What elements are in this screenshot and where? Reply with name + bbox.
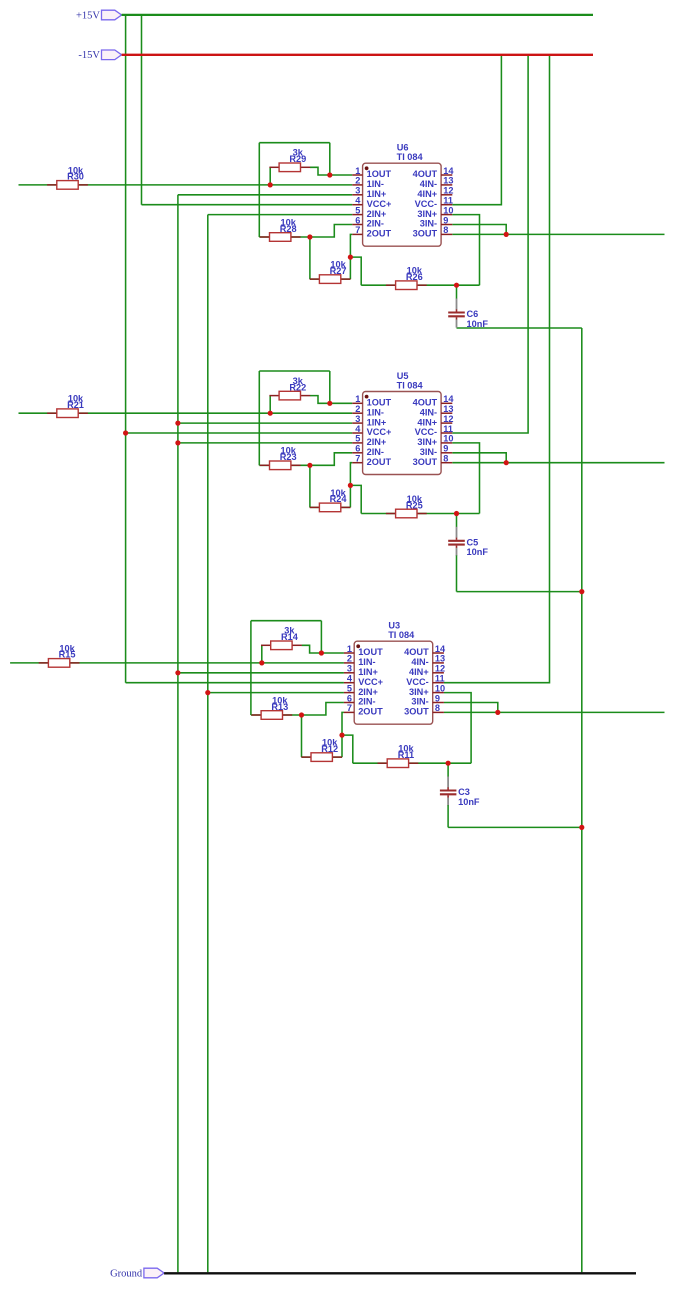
U5 pin 11 bbox=[441, 432, 452, 434]
svg-text:C3: C3 bbox=[458, 787, 470, 797]
wire U6 3OUT output bbox=[452, 233, 664, 235]
wire U3 2OUT (pin7) down to R12 right bbox=[342, 712, 344, 757]
junction U5 VCC+ tap on +15V drop bbox=[123, 430, 128, 435]
wire R22 right step bbox=[310, 396, 352, 404]
svg-text:4: 4 bbox=[355, 424, 361, 434]
U6 pin 3 bbox=[352, 194, 362, 196]
wire U3 VCC+ (pin4) to +15V rail bbox=[126, 682, 344, 684]
wire U5 VCC+ (pin4) to +15V rail bbox=[126, 432, 353, 434]
wire 2IN+ rail to Ground bbox=[207, 215, 209, 1273]
wire 1IN+ rail to Ground bbox=[177, 195, 179, 1273]
svg-text:9: 9 bbox=[443, 215, 448, 225]
U3 pin 12 bbox=[433, 672, 444, 674]
U6 pin 14 bbox=[441, 174, 452, 176]
svg-text:7: 7 bbox=[355, 454, 360, 464]
U5 pin 13 bbox=[441, 412, 452, 414]
svg-text:1: 1 bbox=[355, 394, 360, 404]
svg-text:13: 13 bbox=[443, 404, 453, 414]
wire feedback loop top (U6) bbox=[259, 142, 330, 144]
U6 pin 13 bbox=[441, 184, 452, 186]
U6 pin 10 bbox=[441, 214, 452, 216]
svg-text:5: 5 bbox=[355, 434, 360, 444]
svg-text:2OUT: 2OUT bbox=[367, 457, 392, 467]
svg-text:2IN-: 2IN- bbox=[367, 219, 384, 229]
svg-text:5: 5 bbox=[355, 205, 360, 215]
U5 pin 7 bbox=[352, 462, 362, 464]
wire 2OUT node branch to R26 bbox=[350, 257, 361, 285]
U3 pin 14 bbox=[433, 652, 444, 654]
junction R28/R27 node (U6 2IN-) bbox=[307, 234, 312, 239]
svg-text:TI 084: TI 084 bbox=[388, 630, 415, 640]
U5 pin 10 bbox=[441, 442, 452, 444]
capacitor C3 bbox=[447, 763, 449, 777]
svg-text:1IN-: 1IN- bbox=[358, 657, 375, 667]
wire R28 output jog to U6 2IN- (pin6) bbox=[310, 225, 352, 238]
wire 2OUT node branch to R25 bbox=[350, 485, 361, 513]
svg-text:TI 084: TI 084 bbox=[397, 152, 424, 162]
svg-text:4IN-: 4IN- bbox=[411, 657, 428, 667]
svg-text:6: 6 bbox=[355, 444, 360, 454]
wire U3 1IN+ (pin3) to ground rail bbox=[178, 672, 344, 674]
wire -15V bus bbox=[122, 54, 593, 56]
resistor R28 bbox=[260, 236, 270, 238]
svg-text:4IN+: 4IN+ bbox=[417, 189, 437, 199]
junction C5 bottom on ground vertical bbox=[579, 589, 584, 594]
svg-text:1OUT: 1OUT bbox=[367, 398, 392, 408]
wire U3 3OUT output bbox=[444, 711, 665, 713]
svg-text:13: 13 bbox=[435, 654, 445, 664]
wire U6 VCC+ (pin4) to +15V rail bbox=[142, 204, 353, 206]
U6 pin-1 orientation dot bbox=[365, 166, 369, 170]
svg-text:4OUT: 4OUT bbox=[404, 647, 429, 657]
svg-text:R26: R26 bbox=[406, 272, 423, 282]
wire U5 3OUT output bbox=[452, 462, 664, 464]
svg-text:R25: R25 bbox=[406, 500, 423, 510]
wire input to R15 (U3 1IN-) bbox=[10, 662, 344, 664]
wire R28 row bbox=[259, 236, 310, 238]
U6 pin 12 bbox=[441, 194, 452, 196]
svg-text:14: 14 bbox=[435, 644, 446, 654]
svg-text:2IN-: 2IN- bbox=[358, 697, 375, 707]
wire input to R21 (U5 1IN-) bbox=[19, 412, 353, 414]
svg-text:4IN-: 4IN- bbox=[420, 407, 437, 417]
svg-text:R22: R22 bbox=[289, 382, 306, 392]
wire U5 2IN+ (pin5) to ground rail bbox=[178, 442, 352, 444]
U5 pin 9 bbox=[441, 452, 452, 454]
svg-text:R24: R24 bbox=[330, 494, 348, 504]
port Ground bbox=[144, 1268, 164, 1278]
U6 pin 1 bbox=[352, 174, 362, 176]
svg-text:C5: C5 bbox=[467, 537, 479, 547]
svg-text:7: 7 bbox=[355, 225, 360, 235]
resistor R30 bbox=[47, 184, 57, 186]
wire Ground bus bbox=[164, 1272, 636, 1274]
junction U5 2IN+ tap on ground rail bbox=[175, 440, 180, 445]
svg-text:10: 10 bbox=[435, 683, 445, 693]
svg-text:13: 13 bbox=[443, 176, 453, 186]
wire U6 2IN+ (pin5) to ground rail bbox=[208, 214, 352, 216]
resistor R14 bbox=[261, 644, 271, 646]
svg-text:11: 11 bbox=[443, 424, 453, 434]
wire R14 right step bbox=[302, 645, 344, 653]
wire loop left vertical to R28 bbox=[258, 143, 260, 237]
U6 pin 9 bbox=[441, 224, 452, 226]
svg-text:8: 8 bbox=[443, 454, 448, 464]
wire 2OUT node branch to R11 bbox=[342, 735, 353, 763]
wire C6 bottom to ground vertical bbox=[457, 327, 582, 329]
wire loop right vertical to U6 pin1 bbox=[329, 143, 331, 175]
svg-text:12: 12 bbox=[443, 414, 453, 424]
U5 pin 4 bbox=[352, 432, 362, 434]
svg-text:2: 2 bbox=[355, 176, 360, 186]
svg-text:2: 2 bbox=[347, 654, 352, 664]
op-amp U5 body (TI 084) bbox=[363, 392, 442, 475]
wire +15V drop to U6 VCC+ bbox=[141, 15, 143, 205]
junction U3 2OUT node bbox=[339, 733, 344, 738]
svg-text:9: 9 bbox=[435, 693, 440, 703]
U6 pin 11 bbox=[441, 204, 452, 206]
svg-text:6: 6 bbox=[347, 693, 352, 703]
U6 pin 8 bbox=[441, 233, 452, 235]
svg-text:1: 1 bbox=[347, 644, 352, 654]
junction U3 1IN+ tap on ground rail bbox=[175, 670, 180, 675]
wire loop left vertical to R23 bbox=[258, 371, 260, 465]
svg-text:3IN-: 3IN- bbox=[420, 447, 437, 457]
U3 pin 11 bbox=[433, 682, 444, 684]
svg-text:4OUT: 4OUT bbox=[413, 398, 438, 408]
svg-text:R15: R15 bbox=[59, 650, 76, 660]
junction R13/R12 node (U3 2IN-) bbox=[299, 712, 304, 717]
U5 pin 14 bbox=[441, 402, 452, 404]
wire feedback loop top (U3) bbox=[251, 620, 322, 622]
wire +15V bus bbox=[122, 14, 593, 16]
svg-text:R23: R23 bbox=[280, 452, 297, 462]
svg-text:VCC-: VCC- bbox=[415, 199, 437, 209]
U3 pin 7 bbox=[344, 711, 354, 713]
junction U3 1OUT node bbox=[319, 650, 324, 655]
svg-text:2IN+: 2IN+ bbox=[358, 687, 378, 697]
wire R14 left lead down to 1IN- node bbox=[261, 645, 263, 663]
wire R25 row bbox=[361, 513, 479, 515]
U3 pin 10 bbox=[433, 692, 444, 694]
svg-text:3OUT: 3OUT bbox=[413, 457, 438, 467]
svg-text:11: 11 bbox=[443, 196, 453, 206]
svg-text:3: 3 bbox=[355, 186, 360, 196]
wire U6 1IN+ (pin3) to ground rail bbox=[178, 194, 352, 196]
svg-text:4IN-: 4IN- bbox=[420, 179, 437, 189]
wire R23 output jog to U5 2IN- (pin6) bbox=[310, 453, 352, 466]
svg-text:VCC-: VCC- bbox=[406, 677, 428, 687]
wire capacitor ground vertical bbox=[581, 328, 583, 1272]
U5 pin 6 bbox=[352, 452, 362, 454]
svg-text:2: 2 bbox=[355, 404, 360, 414]
resistor R22 bbox=[269, 395, 279, 397]
U5 pin 2 bbox=[352, 412, 362, 414]
wire feedback loop top (U5) bbox=[259, 370, 330, 372]
wire U3 2IN+ (pin5) to ground rail bbox=[208, 692, 344, 694]
U5 pin 3 bbox=[352, 422, 362, 424]
svg-text:14: 14 bbox=[443, 394, 454, 404]
capacitor C5 bbox=[456, 514, 458, 528]
capacitor C6 bbox=[456, 285, 458, 299]
U3 pin 6 bbox=[344, 702, 354, 704]
svg-text:2IN+: 2IN+ bbox=[367, 437, 387, 447]
svg-text:VCC+: VCC+ bbox=[367, 199, 392, 209]
svg-text:14: 14 bbox=[443, 166, 454, 176]
svg-text:Ground: Ground bbox=[110, 1268, 143, 1279]
op-amp U6 body (TI 084) bbox=[363, 163, 442, 246]
port -15V bbox=[102, 50, 122, 60]
junction C3 bottom on ground vertical bbox=[579, 825, 584, 830]
U6 pin 5 bbox=[352, 214, 362, 216]
resistor R27 bbox=[310, 278, 320, 280]
U5 pin 1 bbox=[352, 402, 362, 404]
svg-text:6: 6 bbox=[355, 215, 360, 225]
wire R13 output jog to U3 2IN- (pin6) bbox=[302, 703, 344, 716]
U3 pin 9 bbox=[433, 702, 444, 704]
svg-text:4IN+: 4IN+ bbox=[409, 667, 429, 677]
svg-text:R29: R29 bbox=[289, 154, 306, 164]
U3 pin 1 bbox=[344, 652, 354, 654]
svg-text:10nF: 10nF bbox=[467, 319, 489, 329]
svg-text:R12: R12 bbox=[321, 744, 338, 754]
junction R23/R24 node (U5 2IN-) bbox=[307, 463, 312, 468]
U3 pin-1 orientation dot bbox=[356, 644, 360, 648]
svg-text:3IN-: 3IN- bbox=[411, 697, 428, 707]
resistor R29 bbox=[269, 166, 279, 168]
svg-text:2IN+: 2IN+ bbox=[367, 209, 387, 219]
svg-text:C6: C6 bbox=[467, 309, 479, 319]
wire R13 right down to R12 left bbox=[301, 715, 303, 757]
svg-text:10: 10 bbox=[443, 434, 453, 444]
junction R11/C3 node (U3 3IN+) bbox=[446, 761, 451, 766]
svg-text:1IN+: 1IN+ bbox=[358, 667, 378, 677]
resistor R25 bbox=[386, 513, 396, 515]
wire loop left vertical to R13 bbox=[250, 621, 252, 715]
svg-text:R27: R27 bbox=[330, 266, 347, 276]
resistor R23 bbox=[260, 464, 270, 466]
junction U6 2OUT node bbox=[348, 255, 353, 260]
svg-text:4IN+: 4IN+ bbox=[417, 417, 437, 427]
wire R11 row bbox=[353, 762, 471, 764]
svg-text:1: 1 bbox=[355, 166, 360, 176]
svg-text:4: 4 bbox=[355, 196, 361, 206]
svg-text:R11: R11 bbox=[398, 750, 414, 760]
U3 pin 3 bbox=[344, 672, 354, 674]
svg-text:8: 8 bbox=[435, 703, 440, 713]
junction U3 3OUT output node bbox=[495, 710, 500, 715]
resistor R12 bbox=[301, 756, 311, 758]
wire U5 1IN+ (pin3) to ground rail bbox=[178, 422, 352, 424]
svg-text:VCC+: VCC+ bbox=[367, 427, 392, 437]
svg-text:-15V: -15V bbox=[78, 50, 100, 61]
wire R23 right down to R24 left bbox=[309, 465, 311, 507]
junction U6 1OUT node bbox=[327, 172, 332, 177]
U5 pin 12 bbox=[441, 422, 452, 424]
svg-text:2OUT: 2OUT bbox=[358, 707, 383, 717]
wire U3 3IN+ (pin10) down to R11/C3 node bbox=[444, 693, 471, 764]
resistor R15 bbox=[39, 662, 49, 664]
svg-text:+15V: +15V bbox=[76, 10, 100, 21]
wire U6 3IN- (pin9) to 3OUT bbox=[452, 225, 506, 235]
wire R24 row bbox=[310, 506, 351, 508]
wire R29 right step bbox=[310, 167, 352, 175]
svg-text:10nF: 10nF bbox=[458, 797, 480, 807]
wire R22 left lead down to 1IN- node bbox=[269, 396, 271, 414]
wire U5 2OUT (pin7) down to R24 right bbox=[350, 463, 352, 508]
svg-text:8: 8 bbox=[443, 225, 448, 235]
junction U3 1IN- node bbox=[259, 660, 264, 665]
svg-text:7: 7 bbox=[347, 703, 352, 713]
svg-text:1IN+: 1IN+ bbox=[367, 417, 387, 427]
svg-text:4: 4 bbox=[347, 674, 353, 684]
svg-text:3IN-: 3IN- bbox=[420, 219, 437, 229]
svg-text:9: 9 bbox=[443, 444, 448, 454]
svg-text:1IN-: 1IN- bbox=[367, 179, 384, 189]
wire loop right vertical to U3 pin1 bbox=[320, 621, 322, 653]
U3 pin 8 bbox=[433, 711, 444, 713]
svg-text:1IN-: 1IN- bbox=[367, 407, 384, 417]
junction R25/C5 node (U5 3IN+) bbox=[454, 511, 459, 516]
svg-text:12: 12 bbox=[443, 186, 453, 196]
U6 pin 4 bbox=[352, 204, 362, 206]
resistor R11 bbox=[378, 762, 388, 764]
resistor R13 bbox=[251, 714, 261, 716]
U3 pin 13 bbox=[433, 662, 444, 664]
svg-text:R21: R21 bbox=[67, 400, 84, 410]
svg-text:11: 11 bbox=[435, 674, 445, 684]
junction U6 3OUT output node bbox=[504, 232, 509, 237]
svg-text:1IN+: 1IN+ bbox=[367, 189, 387, 199]
junction U3 2IN+ tap on ground rail bbox=[205, 690, 210, 695]
svg-text:5: 5 bbox=[347, 683, 352, 693]
wire U5 3IN- (pin9) to 3OUT bbox=[452, 453, 506, 463]
svg-text:TI 084: TI 084 bbox=[397, 380, 424, 390]
svg-text:3: 3 bbox=[355, 414, 360, 424]
U6 pin 2 bbox=[352, 184, 362, 186]
svg-text:VCC-: VCC- bbox=[415, 427, 437, 437]
svg-text:VCC+: VCC+ bbox=[358, 677, 383, 687]
svg-text:3OUT: 3OUT bbox=[404, 707, 429, 717]
junction U5 2OUT node bbox=[348, 483, 353, 488]
svg-text:10nF: 10nF bbox=[467, 547, 489, 557]
wire C3 bottom to ground vertical bbox=[448, 826, 582, 828]
junction U5 3OUT output node bbox=[504, 460, 509, 465]
U5 pin 8 bbox=[441, 462, 452, 464]
U5 pin-1 orientation dot bbox=[365, 395, 369, 399]
U5 pin 5 bbox=[352, 442, 362, 444]
svg-text:1OUT: 1OUT bbox=[358, 647, 383, 657]
svg-text:R14: R14 bbox=[281, 632, 299, 642]
wire input to R30 (U6 1IN-) bbox=[19, 184, 353, 186]
junction U5 1OUT node bbox=[327, 401, 332, 406]
wire U3 3IN- (pin9) to 3OUT bbox=[444, 703, 498, 713]
wire U5 VCC- (pin11) to -15V rail bbox=[452, 55, 528, 433]
svg-text:R30: R30 bbox=[67, 172, 84, 182]
wire R13 row bbox=[251, 714, 302, 716]
wire U6 VCC- (pin11) to -15V rail bbox=[452, 55, 501, 205]
wire U3 VCC- (pin11) to -15V rail bbox=[444, 55, 550, 683]
U3 pin 5 bbox=[344, 692, 354, 694]
junction U6 1IN- node bbox=[268, 182, 273, 187]
wire R28 right down to R27 left bbox=[309, 237, 311, 279]
wire U5 3IN+ (pin10) down to R25/C5 node bbox=[452, 443, 479, 514]
svg-text:3OUT: 3OUT bbox=[413, 229, 438, 239]
svg-text:R28: R28 bbox=[280, 224, 297, 234]
svg-text:4OUT: 4OUT bbox=[413, 169, 438, 179]
junction R26/C6 node (U6 3IN+) bbox=[454, 283, 459, 288]
wire R27 row bbox=[310, 278, 351, 280]
wire R26 row bbox=[361, 284, 479, 286]
svg-text:3IN+: 3IN+ bbox=[417, 209, 437, 219]
svg-text:R13: R13 bbox=[271, 702, 288, 712]
wire loop right vertical to U5 pin1 bbox=[329, 371, 331, 403]
wire U6 3IN+ (pin10) down to R26/C6 node bbox=[452, 215, 479, 286]
wire U6 2OUT (pin7) down to R27 right bbox=[350, 234, 352, 279]
wire R12 row bbox=[302, 756, 343, 758]
svg-text:2IN-: 2IN- bbox=[367, 447, 384, 457]
resistor R24 bbox=[310, 506, 320, 508]
U6 pin 6 bbox=[352, 224, 362, 226]
port +15V bbox=[102, 10, 122, 20]
resistor R21 bbox=[47, 412, 57, 414]
U3 pin 4 bbox=[344, 682, 354, 684]
svg-text:10: 10 bbox=[443, 205, 453, 215]
wire R23 row bbox=[259, 464, 310, 466]
junction U5 1IN+ tap on ground rail bbox=[175, 421, 180, 426]
op-amp U3 body (TI 084) bbox=[354, 641, 433, 724]
svg-text:3IN+: 3IN+ bbox=[409, 687, 429, 697]
junction U5 1IN- node bbox=[268, 411, 273, 416]
wire R29 left lead down to 1IN- node bbox=[269, 167, 271, 185]
U3 pin 2 bbox=[344, 662, 354, 664]
svg-text:3: 3 bbox=[347, 664, 352, 674]
resistor R26 bbox=[386, 284, 396, 286]
wire +15V drop to U5/U3 VCC+ bbox=[125, 15, 127, 683]
U6 pin 7 bbox=[352, 233, 362, 235]
svg-text:1OUT: 1OUT bbox=[367, 169, 392, 179]
svg-text:3IN+: 3IN+ bbox=[417, 437, 437, 447]
wire C5 bottom to ground vertical bbox=[457, 591, 582, 593]
svg-text:12: 12 bbox=[435, 664, 445, 674]
svg-text:2OUT: 2OUT bbox=[367, 229, 392, 239]
